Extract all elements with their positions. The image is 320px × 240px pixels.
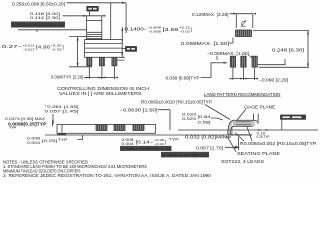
svg-text:0.256±0.008 [6.50±0.20]: 0.256±0.008 [6.50±0.20] — [12, 1, 65, 6]
svg-text:−0.0630 [1.60]: −0.0630 [1.60] — [120, 107, 158, 112]
dim line tab width — [63, 15, 105, 17]
svg-text:VALUES IN [ ] ARE MILLIMETERS: VALUES IN [ ] ARE MILLIMETERS — [59, 91, 142, 96]
svg-text:R0.0060±0.0020 [R0.15±0.05]TYP: R0.0060±0.0020 [R0.15±0.05]TYP. — [141, 100, 213, 105]
svg-text:[4.96: [4.96 — [36, 44, 51, 49]
lead detail foot — [228, 132, 233, 135]
svg-text:0.25 TYP: 0.25 TYP — [257, 135, 270, 139]
leader lead pad height — [217, 56, 253, 61]
svg-text:SEATING PLANE: SEATING PLANE — [237, 151, 280, 156]
boxed label right of body — [122, 47, 136, 52]
leader from bar to tab — [18, 30, 87, 32]
svg-text:R0.0060±0.002 [R0.15±0.05]TYP.: R0.0060±0.002 [R0.15±0.05]TYP. — [240, 141, 317, 146]
dim line 0.067 — [225, 146, 239, 148]
svg-text:0.039 [0.99]TYP: 0.039 [0.99]TYP — [166, 75, 200, 80]
svg-text:0.008: 0.008 — [27, 137, 40, 141]
svg-text:0.004: 0.004 — [27, 141, 40, 145]
svg-text:2. REFERENCE JEDEC REGISTRATIO: 2. REFERENCE JEDEC REGISTRATION TO-261, … — [3, 173, 212, 178]
svg-text:0.248 [6.30]: 0.248 [6.30] — [272, 48, 304, 53]
profile hatched cell 2 — [114, 125, 125, 131]
seating plane leader — [228, 137, 237, 152]
profile left lead foot — [58, 125, 67, 136]
svg-text:0.0900TYP. [2.29]: 0.0900TYP. [2.29] — [51, 74, 83, 79]
svg-text:−0.090 [2.29]: −0.090 [2.29] — [259, 77, 288, 82]
left dim bracket — [69, 37, 92, 67]
svg-text:[0.14−: [0.14− — [136, 139, 155, 144]
svg-text:LAND PATTERN RECOMMENDATION: LAND PATTERN RECOMMENDATION — [204, 92, 281, 97]
svg-text:TYP.: TYP. — [169, 138, 180, 142]
seating plane line — [45, 134, 252, 136]
svg-text:0.032 [0.82]MIN: 0.032 [0.82]MIN — [185, 135, 227, 140]
svg-text:0.129MAX. [3.28]: 0.129MAX. [3.28] — [192, 12, 229, 17]
svg-text:⌜0.061 [1.55]: ⌜0.061 [1.55] — [45, 105, 79, 109]
lead 2 front view — [99, 57, 104, 66]
profile hatched cell 1 — [96, 125, 107, 131]
lead detail shoulder — [254, 114, 259, 125]
extension line to lead3 — [110, 3, 112, 40]
lead pad 3 — [252, 56, 257, 67]
svg-text:0.58]: 0.58] — [198, 119, 211, 124]
leader pad width — [201, 63, 215, 78]
lead pad 1 — [230, 56, 235, 67]
leader from R dim to lead — [205, 105, 230, 120]
right vertical dim 0.1400 [3.56] — [121, 27, 123, 42]
svg-text:−0.0008: −0.0008 — [148, 29, 161, 33]
right dim 0.248 [6.30] — [253, 31, 309, 68]
gage plane leader — [237, 109, 246, 120]
svg-text:0.023: 0.023 — [182, 117, 196, 121]
svg-text:0.0350-0.0450 [0.89-1.14]: 0.0350-0.0450 [0.89-1.14] — [13, 23, 64, 28]
svg-text:−0.33: −0.33 — [51, 48, 62, 52]
svg-text:0.059MAX. [1.50]: 0.059MAX. [1.50] — [181, 41, 229, 46]
svg-text:]: ] — [63, 44, 64, 49]
leaders to bend radii — [235, 127, 252, 141]
dim line top width — [67, 2, 127, 4]
dim line pad pitch — [233, 78, 258, 80]
boxed label top — [87, 6, 99, 15]
svg-text:[3.56: [3.56 — [163, 27, 180, 32]
svg-text:0.033: 0.033 — [182, 112, 196, 116]
dense dim bar — [11, 22, 65, 28]
svg-text:GAGE PLANE: GAGE PLANE — [244, 105, 275, 110]
svg-text:SOT223, 4 LEADS: SOT223, 4 LEADS — [221, 159, 264, 164]
svg-text:]: ] — [165, 139, 166, 144]
leader standoff — [78, 136, 83, 140]
svg-text:−0.013: −0.013 — [23, 48, 35, 52]
dim line tab pad width — [230, 13, 253, 15]
pad centerlines — [233, 67, 255, 80]
leader tab pad height — [229, 38, 233, 44]
svg-text:0.114 [2.90]: 0.114 [2.90] — [30, 16, 60, 20]
svg-text:0.057 [1.45]: 0.057 [1.45] — [45, 109, 79, 113]
svg-text:TYP.: TYP. — [58, 138, 68, 142]
svg-text:−0.02: −0.02 — [179, 29, 191, 33]
lead 3 front view — [112, 57, 117, 66]
tab pad hatched — [236, 30, 252, 37]
gage gap arrows — [257, 129, 270, 131]
lead detail seating segment — [228, 134, 252, 136]
lead detail gage line — [178, 129, 318, 131]
svg-text:0.27−: 0.27− — [2, 44, 23, 49]
svg-text:0.067 [1.70]: 0.067 [1.70] — [196, 146, 223, 151]
extension line right of top dim — [125, 3, 127, 33]
leader 0.061 down — [52, 114, 54, 125]
tab outline top view — [87, 21, 102, 40]
boxed 0.010 [0.25] — [281, 115, 306, 130]
profile hatched cell 3 — [133, 125, 144, 131]
dense bar text 1 — [120, 146, 172, 151]
svg-text:0.0040-0.0079[0.10]: 0.0040-0.0079[0.10] — [163, 153, 208, 158]
lead pad 2 — [241, 56, 246, 67]
svg-text:TYP: TYP — [9, 125, 16, 129]
svg-text:0.1400−: 0.1400− — [125, 27, 149, 32]
body outline top view — [85, 40, 123, 58]
svg-text:0.0374 [0.95] MAX: 0.0374 [0.95] MAX — [5, 117, 46, 121]
lead detail bend down to foot — [228, 120, 233, 133]
svg-text:[0.25]: [0.25] — [42, 138, 57, 143]
tab hatch lines — [87, 32, 102, 38]
centerline symbol land pattern — [241, 20, 247, 27]
lead 1 front view — [87, 57, 92, 66]
dim line lead pitch — [84, 77, 114, 79]
side profile body — [57, 125, 156, 134]
lead pitch extension lines — [89, 66, 114, 79]
svg-text:[0.84: [0.84 — [198, 114, 212, 119]
svg-text:]: ] — [191, 27, 192, 32]
body bottom extension line — [115, 57, 125, 60]
extension line right of 0.0630 — [158, 110, 170, 130]
pad side tick line — [258, 59, 286, 65]
svg-text:−0.059MAX. [1.50]: −0.059MAX. [1.50] — [207, 51, 249, 56]
svg-text:0.0350-0.0450[0.89-1.14]: 0.0350-0.0450[0.89-1.14] — [122, 146, 171, 151]
leader 0.033 — [211, 118, 223, 120]
dense bar text 2 — [161, 152, 209, 158]
lead detail flat section — [233, 120, 255, 126]
